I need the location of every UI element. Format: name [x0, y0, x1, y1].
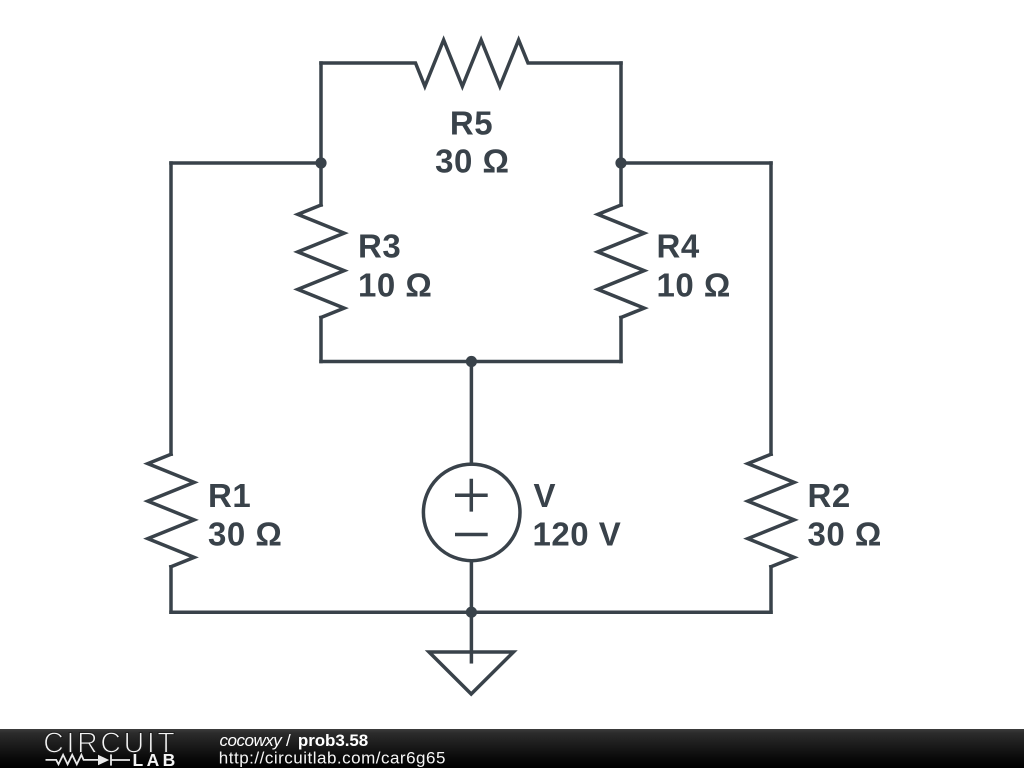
voltage source V body — [423, 464, 520, 561]
svg-text:R1: R1 — [208, 477, 251, 514]
resistor R1 — [148, 454, 194, 567]
node D junction dot (ground rail) — [466, 607, 477, 618]
wire R3 top lead from node A — [319, 163, 323, 205]
footer bar — [0, 729, 1024, 768]
voltage source V plus sign — [455, 479, 488, 512]
ground symbol — [429, 652, 514, 694]
wire left vertical (down to R1) — [169, 163, 173, 454]
resistor R3 — [298, 205, 344, 318]
wire R2 bottom lead — [769, 567, 773, 612]
wire middle horizontal (R3 to R4 through node C) — [321, 360, 621, 364]
svg-text:30 Ω: 30 Ω — [435, 142, 509, 179]
svg-text:R2: R2 — [808, 477, 851, 514]
wire bottom rail — [171, 610, 771, 614]
svg-text:prob3.58: prob3.58 — [298, 731, 368, 750]
wire left horizontal (left branch to node A) — [171, 161, 321, 165]
svg-text:10 Ω: 10 Ω — [657, 266, 731, 303]
wire node B to right branch — [621, 161, 771, 165]
voltage source V minus sign — [455, 533, 488, 537]
svg-text:10 Ω: 10 Ω — [358, 266, 432, 303]
svg-text:R5: R5 — [450, 104, 493, 141]
svg-text:R3: R3 — [358, 228, 401, 265]
svg-text:V: V — [534, 477, 557, 514]
svg-text:LAB: LAB — [133, 750, 177, 768]
svg-text:cocowxy: cocowxy — [220, 731, 284, 750]
wire right vertical (down to R2) — [769, 163, 773, 454]
svg-text:120 V: 120 V — [533, 516, 622, 553]
node B junction dot — [615, 157, 626, 168]
wire top-right vertical (R5 row down to node B) — [619, 63, 623, 163]
wire ground lead — [470, 612, 474, 662]
wire R4 bottom lead — [619, 318, 623, 362]
svg-text:/: / — [286, 731, 291, 750]
CircuitLab logo diode triangle — [98, 755, 109, 766]
wire source V bottom lead — [470, 561, 474, 612]
node C junction dot — [466, 356, 477, 367]
svg-text:30 Ω: 30 Ω — [208, 516, 282, 553]
wire R4 top lead from node B — [619, 163, 623, 205]
resistor R2 — [748, 454, 794, 567]
node A junction dot — [315, 157, 326, 168]
svg-text:30 Ω: 30 Ω — [808, 516, 882, 553]
resistor R5 — [321, 40, 621, 86]
svg-text:R4: R4 — [657, 228, 700, 265]
wire R3 bottom lead — [319, 318, 323, 362]
resistor R4 — [598, 205, 644, 318]
wire top-left vertical (node A up to R5 row) — [319, 63, 323, 163]
wire node C down to source V — [470, 362, 474, 465]
CircuitLab logo resistor-diode squiggle — [46, 754, 131, 765]
svg-text:http://circuitlab.com/car6g65: http://circuitlab.com/car6g65 — [219, 748, 446, 767]
wire R1 bottom lead — [169, 567, 173, 612]
